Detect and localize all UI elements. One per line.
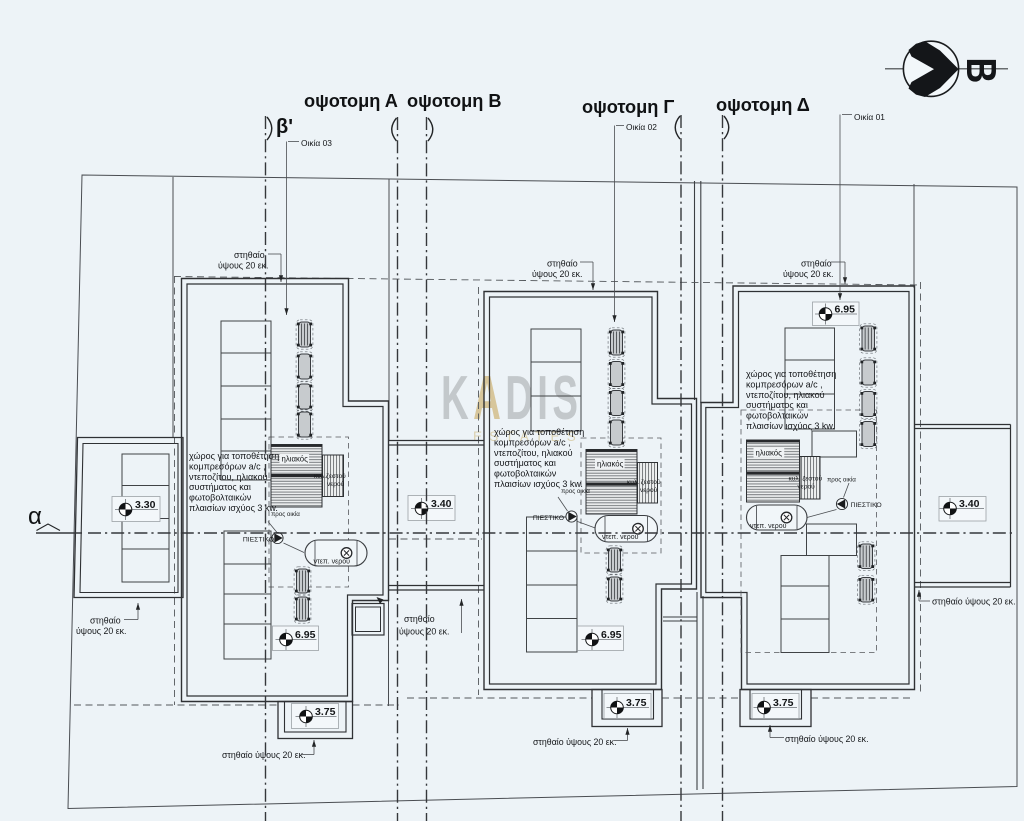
house 01 hot water cylinder: [800, 457, 820, 500]
svg-text:ηλιακός: ηλιακός: [597, 460, 624, 469]
svg-text:Οικία 01: Οικία 01: [854, 112, 885, 122]
svg-text:κυλ. ζεστού: κυλ. ζεστού: [789, 475, 823, 483]
parcel wall east of house 01: [913, 184, 915, 288]
svg-text:3.30: 3.30: [135, 499, 156, 511]
house 01 side room boxes: [812, 431, 857, 457]
left wing flat roof inner: [80, 444, 178, 593]
svg-text:ντεπ. νερού: ντεπ. νερού: [314, 558, 351, 566]
party wall between house 02 and house 01 (upper): [694, 181, 696, 400]
svg-text:στηθαίο: στηθαίο: [234, 250, 265, 260]
svg-text:3.40: 3.40: [959, 498, 980, 510]
svg-text:οψοτομη Γ: οψοτομη Γ: [582, 97, 674, 117]
level marker 6.95 house 02: [578, 626, 624, 651]
svg-text:νερού: νερού: [798, 483, 816, 491]
svg-text:στηθαίο ύψους 20 εκ.: στηθαίο ύψους 20 εκ.: [932, 597, 1016, 607]
house 03 room stack lower: [224, 531, 271, 659]
house 02 pump leader lines: [558, 497, 598, 529]
svg-text:κομπρεσόρων a/c ,: κομπρεσόρων a/c ,: [746, 379, 823, 389]
svg-text:ύψους 20 εκ.: ύψους 20 εκ.: [218, 261, 268, 271]
house 01 solar panel ηλιακός: [747, 440, 800, 502]
house 03 pressure pump ΠΙΕΣΤΙΚΟ: [243, 532, 283, 543]
house 03 roof vents column: [296, 320, 313, 349]
svg-text:B: B: [957, 58, 1003, 84]
house 03 hot water cylinder: [323, 455, 344, 497]
house Οικία 03 outer wall: [182, 279, 389, 702]
dashed eave right of house 01: [920, 282, 922, 694]
svg-text:ηλιακός: ηλιακός: [282, 455, 309, 464]
section line β': [265, 116, 267, 821]
svg-text:συστήματος και: συστήματος και: [189, 482, 251, 492]
svg-text:στηθαίο ύψους 20 εκ.: στηθαίο ύψους 20 εκ.: [785, 734, 869, 744]
house 01 south balcony: [740, 690, 811, 727]
left wing flat roof outer: [74, 438, 183, 598]
dashed line middle courtyard: [389, 538, 482, 540]
svg-text:6.95: 6.95: [601, 629, 622, 641]
house 01 room stack lower: [781, 556, 829, 653]
svg-text:πλαισίων ισχύος 3 kw.: πλαισίων ισχύος 3 kw.: [189, 503, 278, 513]
dashed eave left of house 02: [478, 287, 480, 695]
middle courtyard roof walls: [389, 440, 485, 442]
house 02 equipment dashed boundary: [581, 438, 661, 553]
svg-text:ντεποζίτου, ηλιακού: ντεποζίτου, ηλιακού: [494, 448, 573, 458]
house 01 pump leader lines: [807, 483, 849, 518]
svg-text:3.75: 3.75: [626, 697, 647, 709]
house 02 south balcony: [592, 690, 662, 727]
svg-text:ΠΙΕΣΤΙΚΟ: ΠΙΕΣΤΙΚΟ: [533, 515, 564, 522]
svg-text:ντεποζίτου, ηλιακού: ντεποζίτου, ηλιακού: [746, 390, 825, 400]
house Οικία 01 outer wall: [701, 286, 915, 690]
house 03 water tank ντεπ. νερού: [305, 540, 367, 566]
svg-text:Οικία 03: Οικία 03: [301, 138, 332, 148]
house 02 hot water cylinder: [638, 463, 658, 504]
svg-text:στηθαίο ύψους 20 εκ.: στηθαίο ύψους 20 εκ.: [533, 737, 617, 747]
level marker 3.75 house 01 balcony: [752, 694, 799, 719]
svg-text:συστήματος και: συστήματος και: [494, 458, 556, 468]
svg-text:6.95: 6.95: [835, 304, 856, 316]
svg-text:νερού: νερού: [640, 486, 658, 494]
svg-text:προς οικία: προς οικία: [561, 488, 590, 495]
dashed eave line across top of houses: [174, 277, 920, 286]
left wing room stack: [122, 454, 169, 582]
parcel wall line west of house 03: [172, 177, 174, 438]
svg-text:οψοτομη Δ: οψοτομη Δ: [716, 95, 810, 115]
house 01 annotation text: [746, 369, 836, 431]
svg-text:φωτοβολταικών: φωτοβολταικών: [494, 469, 557, 479]
svg-text:κομπρεσόρων a/c ,: κομπρεσόρων a/c ,: [494, 437, 571, 447]
svg-text:ντεπ. νερού: ντεπ. νερού: [602, 533, 639, 541]
svg-text:στηθαίο ύψους 20 εκ.: στηθαίο ύψους 20 εκ.: [222, 750, 306, 760]
site boundary polygon: [68, 175, 1017, 809]
section line οψοτομη Γ: [680, 115, 682, 821]
level marker 6.95 house 03: [273, 626, 319, 651]
house Οικία 02 inner wall: [490, 297, 692, 684]
section line οψοτομη Α: [397, 117, 399, 821]
house Οικία 01 inner wall: [706, 292, 909, 685]
svg-text:ΠΙΕΣΤΙΚΟ: ΠΙΕΣΤΙΚΟ: [243, 537, 274, 544]
svg-text:ύψους 20 εκ.: ύψους 20 εκ.: [783, 269, 833, 279]
house 02 pressure pump ΠΙΕΣΤΙΚΟ: [533, 511, 577, 522]
svg-text:χώρος για τοποθέτηση: χώρος για τοποθέτηση: [494, 427, 584, 437]
svg-text:ντεποζίτου, ηλιακού: ντεποζίτου, ηλιακού: [189, 472, 268, 482]
house 02 room stack lower: [527, 517, 578, 652]
level marker 3.75 house 03 balcony: [292, 704, 339, 729]
svg-text:κυλ. ζεστού: κυλ. ζεστού: [627, 478, 661, 486]
level marker 3.40 middle courtyard: [408, 496, 455, 521]
svg-text:KADIS: KADIS: [441, 363, 582, 433]
svg-text:συστήματος και: συστήματος και: [746, 400, 808, 410]
svg-text:α: α: [28, 503, 42, 530]
svg-text:3.40: 3.40: [431, 498, 452, 510]
house 03 stair box: [352, 604, 384, 636]
svg-text:6.95: 6.95: [295, 629, 316, 641]
north arrow: [885, 41, 1008, 97]
right flat roof walls: [915, 424, 1011, 426]
svg-text:3.75: 3.75: [315, 706, 336, 718]
svg-text:οψοτομη Α: οψοτομη Α: [304, 91, 398, 111]
svg-text:β': β': [276, 116, 293, 138]
svg-text:οψοτομη Β: οψοτομη Β: [407, 91, 502, 111]
house 03 pump leader lines: [268, 522, 304, 553]
svg-text:3.75: 3.75: [773, 697, 794, 709]
house 01 water tank ντεπ. νερού: [747, 505, 808, 530]
svg-text:φωτοβολταικών: φωτοβολταικών: [189, 493, 252, 503]
section line οψοτομη Δ: [722, 115, 724, 821]
svg-text:ύψους 20 εκ.: ύψους 20 εκ.: [399, 627, 449, 637]
house 03 room stack upper: [221, 321, 271, 480]
house 01 roof vents column: [860, 324, 877, 353]
svg-text:ΠΙΕΣΤΙΚΟ: ΠΙΕΣΤΙΚΟ: [851, 502, 882, 509]
house 03 annotation text: [189, 451, 279, 513]
house 01 equipment dashed boundary: [741, 410, 877, 653]
svg-text:στηθαίο: στηθαίο: [90, 616, 121, 626]
svg-text:ηλιακός: ηλιακός: [756, 449, 783, 458]
KADIS watermark: [441, 363, 582, 433]
svg-text:στηθαίο: στηθαίο: [404, 614, 435, 624]
house 02 room stack upper: [531, 329, 581, 431]
level marker 6.95 house 01: [813, 302, 860, 326]
svg-text:πλαισίων ισχύος 3 kw.: πλαισίων ισχύος 3 kw.: [494, 479, 583, 489]
house 03 solar panel ηλιακός: [271, 445, 322, 508]
svg-text:κυλ.ζεστού: κυλ.ζεστού: [314, 472, 346, 480]
svg-text:κομπρεσόρων a/c ,: κομπρεσόρων a/c ,: [189, 461, 266, 471]
level marker 3.75 house 02 balcony: [604, 694, 651, 719]
party wall between house 02 and house 01 (lower): [696, 592, 698, 790]
section line οψοτομη Β: [426, 117, 428, 821]
house Οικία 03 inner wall: [187, 284, 383, 696]
house 02 solar panel ηλιακός: [586, 450, 637, 515]
svg-text:χώρος για τοποθέτηση: χώρος για τοποθέτηση: [746, 369, 836, 379]
svg-text:ύψους 20 εκ.: ύψους 20 εκ.: [532, 269, 582, 279]
svg-text:πλαισίων ισχύος 3 kw.: πλαισίων ισχύος 3 kw.: [746, 421, 835, 431]
house 02 roof vents column: [608, 328, 625, 357]
house 03 equipment dashed boundary: [269, 437, 349, 587]
svg-text:φωτοβολταικών: φωτοβολταικών: [746, 411, 809, 421]
svg-text:προς οικία: προς οικία: [827, 477, 856, 484]
house Οικία 02 outer wall: [484, 292, 697, 690]
house 03 south balcony: [278, 702, 353, 739]
parcel wall between house 03 and house 02: [388, 179, 390, 441]
house 01 pressure pump ΠΙΕΣΤΙΚΟ: [836, 498, 881, 509]
house 01 room stack upper: [785, 328, 835, 429]
house 02 annotation text: [494, 427, 584, 489]
section line α horizontal: [36, 532, 82, 534]
svg-text:Οικία 02: Οικία 02: [626, 122, 657, 132]
svg-text:ντεπ. νερού: ντεπ. νερού: [750, 522, 787, 530]
svg-text:νερού: νερού: [327, 480, 345, 488]
house 02 water tank ντεπ. νερού: [595, 516, 658, 543]
level marker 3.30 left wing: [112, 497, 160, 522]
level marker 3.40 right flat roof: [939, 497, 986, 522]
dashed eave left of house 03: [174, 276, 176, 705]
svg-text:στηθαίο: στηθαίο: [801, 259, 832, 269]
svg-text:στηθαίο: στηθαίο: [547, 259, 578, 269]
svg-text:ύψους 20 εκ.: ύψους 20 εκ.: [76, 626, 126, 636]
